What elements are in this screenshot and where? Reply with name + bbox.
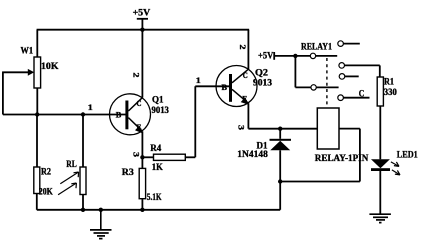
wire coil return right riser [359,129,361,182]
wire R2 bottom lead [36,194,38,210]
photoresistor RL body [80,167,86,195]
svg-text:RELAY1: RELAY1 [301,42,332,52]
wire contact A stub [343,43,359,45]
wire pole 2 horizontal [295,86,338,88]
svg-text:9013: 9013 [152,105,170,115]
wire base node line [3,114,126,116]
wire relay right lead [339,128,360,130]
wire W1 bottom lead [36,88,38,115]
relay pole contact 2 [311,85,316,90]
photoresistor RL light arrow 2 [58,183,76,195]
svg-text:1K: 1K [152,162,163,172]
LED1 symbol [371,159,400,175]
svg-text:RELAY-1PIN: RELAY-1PIN [315,153,369,163]
svg-text:1: 1 [88,103,93,112]
wire pole branch down [294,56,296,88]
svg-text:R4: R4 [150,143,161,153]
svg-text:B: B [116,110,122,119]
svg-text:RL: RL [66,159,77,169]
wire left vertical [2,72,4,114]
wire Q2 collector [247,30,249,69]
svg-text:E: E [137,123,142,132]
relay contact D [338,95,344,101]
node R3 bottom junction [140,208,144,212]
svg-text:2: 2 [238,45,247,50]
wire Q1 emitter [141,131,143,157]
svg-text:B: B [222,83,228,92]
relay contact C [339,74,345,80]
wire contact C stub [345,75,359,77]
svg-text:Q1: Q1 [152,95,164,105]
ground main [90,210,112,239]
svg-text:E: E [242,94,247,103]
power +5V right port tick [273,52,275,60]
svg-text:10K: 10K [41,61,59,71]
node RL top junction [81,112,85,116]
wire R4 riser to Q2 base [194,86,196,157]
node W1/R2 junction [35,112,39,116]
svg-text:3: 3 [132,152,141,157]
wire R2 top lead [36,115,38,168]
node ground stem junction [99,208,103,212]
wire Q2 base [195,85,229,87]
node +5V rail junction [140,28,144,32]
resistor R2 body [34,167,40,194]
power +5V top port [137,18,148,20]
svg-text:9013: 9013 [253,77,273,87]
relay contact B [339,63,345,69]
wire D1 top lead [279,129,281,139]
wire R3 bottom lead [141,199,143,210]
photoresistor RL light arrow 1 [60,172,78,184]
svg-text:C: C [243,71,248,80]
node D1 bottom junction [278,179,282,183]
ground LED1 [369,214,391,222]
node D1 top junction [278,127,282,131]
transistor Q1 [110,94,151,135]
resistor R4 body [154,154,186,160]
wire ground rail [37,209,280,211]
svg-text:330: 330 [384,87,397,97]
svg-text:R3: R3 [122,167,135,177]
svg-text:C: C [137,99,142,108]
wire coil return bottom [280,181,360,183]
wire contact D stub [343,97,369,99]
transistor Q2 [216,66,257,107]
relay coil box [317,108,339,149]
wire W1 top lead [36,30,38,57]
diode D1 [270,139,292,151]
resistor R1 body [377,77,383,106]
svg-text:C: C [359,89,365,99]
node +5V branch junction [293,54,297,58]
wire RL top lead [82,115,84,168]
svg-text:W1: W1 [21,46,34,56]
resistor R3 body [139,168,145,198]
svg-text:+5V: +5V [133,8,151,18]
svg-text:LED1: LED1 [397,150,418,160]
wire +5V to pole 1 [274,55,337,57]
potentiometer W1 wiper arrowhead [28,69,34,76]
wire emitter to relay [248,128,317,130]
wire R4 right lead [185,156,195,158]
wire contact B to R1 [345,64,380,66]
wire RL bottom lead [82,195,84,210]
node emitter/R4/R3 junction [140,155,144,159]
relay actuation dashed link [326,58,328,108]
svg-text:2: 2 [132,73,141,78]
svg-text:R2: R2 [41,167,51,177]
svg-text:5.1K: 5.1K [147,192,162,202]
wire top +5V rail [37,29,250,31]
node RL bottom junction [81,208,85,212]
relay contact A [338,41,344,47]
wire LED1 bottom lead [379,171,381,214]
svg-text:+5V: +5V [258,51,274,61]
wire ground riser [279,182,281,210]
svg-text:1N4148: 1N4148 [237,149,268,159]
svg-text:20K: 20K [39,186,53,196]
wire R4 left lead [142,156,153,158]
wire R1 bottom lead [379,106,381,159]
wire D1 bottom lead [279,150,281,181]
wire R3 top lead [141,157,143,168]
svg-text:Q2: Q2 [255,68,269,78]
wire Q1 collector [141,30,143,98]
svg-text:1: 1 [196,76,201,85]
relay pole contact 1 [310,53,315,58]
potentiometer W1 body [34,57,41,88]
svg-text:3: 3 [237,125,246,130]
wire Q2 emitter [247,103,249,129]
svg-text:R1: R1 [384,76,394,86]
wire W1 wiper arm [2,71,29,73]
